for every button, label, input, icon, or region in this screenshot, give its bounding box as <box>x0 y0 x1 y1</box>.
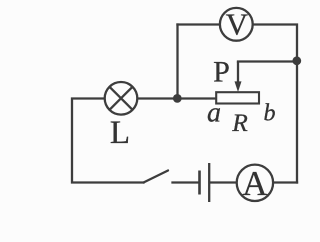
node: junction B (wiper tap on right rail) <box>292 56 301 65</box>
node: junction A (lamp/rheostat/voltmeter tap) <box>173 94 182 103</box>
lamp L <box>105 82 138 115</box>
svg-text:V: V <box>226 7 249 42</box>
wire: vertical drop from top-left corner to junction A <box>176 25 178 99</box>
svg-text:b: b <box>264 101 276 127</box>
wire: lamp left lead, left rail, bottom rail to switch <box>72 99 144 183</box>
rheostat R (resistor body) <box>216 92 259 103</box>
svg-text:a: a <box>207 98 221 129</box>
svg-text:L: L <box>110 115 130 151</box>
ammeter A <box>237 164 273 203</box>
wire: right rail from junction B down to bottom-right corner <box>296 61 298 183</box>
battery <box>200 163 210 202</box>
svg-text:A: A <box>242 164 268 203</box>
wire: V right lead to top-right corner and down to junction B <box>253 25 297 62</box>
svg-text:R: R <box>231 108 248 137</box>
wire: wiper feed from junction B to slider line <box>238 60 297 62</box>
wire: switch right contact to battery <box>173 181 199 183</box>
voltmeter V <box>220 7 253 42</box>
wire: battery to ammeter left lead <box>210 181 237 183</box>
wire: ammeter right lead to right rail <box>274 181 298 183</box>
wire: lamp right lead to junction A <box>139 97 178 99</box>
wire: junction A to rheostat left end <box>178 97 216 99</box>
wire: V left lead to top-left corner <box>178 23 220 25</box>
switch S <box>144 171 169 183</box>
svg-text:P: P <box>213 55 230 88</box>
slider P (wiper arrow) <box>235 62 242 93</box>
